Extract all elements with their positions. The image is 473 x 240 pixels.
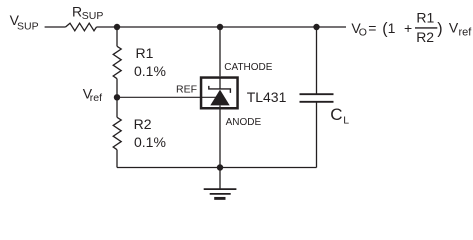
wire anode from triangle through box to ground rail	[219, 105, 221, 167]
fraction bar R1/R2	[415, 27, 437, 29]
svg-text:R2: R2	[416, 29, 434, 45]
wire ground stub	[219, 168, 221, 189]
svg-text:SUP: SUP	[82, 10, 104, 22]
wire REF net from Vref node to TL431	[117, 96, 216, 98]
wire cathode inside box	[219, 78, 221, 89]
node junction dot anode/ground rail	[217, 164, 223, 170]
svg-text:TL431: TL431	[247, 89, 287, 105]
resistor RSUP	[66, 23, 97, 31]
svg-text:R1: R1	[136, 45, 154, 61]
svg-text:1: 1	[388, 20, 396, 36]
svg-text:L: L	[343, 114, 349, 126]
wire R2 to ground rail	[116, 150, 118, 168]
value label R2 0.1%	[134, 116, 166, 150]
svg-text:R: R	[72, 4, 82, 20]
svg-text:ref: ref	[459, 27, 473, 39]
svg-text:R1: R1	[416, 9, 434, 25]
node junction dot Vref	[114, 94, 120, 100]
svg-text:ANODE: ANODE	[226, 117, 262, 128]
svg-text:SUP: SUP	[17, 21, 39, 33]
node label VSUP	[10, 12, 39, 33]
wire R1 to R2 through Vref node	[116, 79, 118, 118]
svg-text:C: C	[330, 105, 342, 124]
svg-text:+: +	[404, 20, 412, 36]
value label R1 0.1%	[134, 45, 166, 79]
wire bottom ground rail	[117, 167, 317, 169]
wire RSUP to output node	[97, 26, 347, 28]
resistor R1	[113, 46, 121, 78]
op-amp U1 TL431 body box	[201, 78, 238, 109]
svg-text:CATHODE: CATHODE	[224, 62, 272, 73]
node junction dot RSUP/R1	[114, 24, 120, 30]
svg-text:O: O	[359, 27, 367, 39]
node label Vref	[83, 86, 102, 104]
svg-text:REF: REF	[176, 83, 197, 95]
node junction dot output/capacitor	[313, 24, 319, 30]
svg-text:ref: ref	[90, 92, 102, 104]
svg-text:=: =	[368, 20, 376, 36]
value label RSUP	[72, 4, 103, 22]
svg-text:0.1%: 0.1%	[134, 63, 166, 79]
value label CL	[330, 105, 349, 126]
svg-text:V: V	[449, 20, 459, 36]
ground	[204, 189, 237, 198]
svg-text:R2: R2	[134, 116, 152, 132]
wire capacitor bottom to rail	[316, 102, 318, 168]
wire VSUP to RSUP	[45, 26, 66, 28]
wire cathode from top rail to TL431	[219, 27, 221, 76]
capacitor CL plates	[300, 94, 334, 102]
formula VO = (1 + R1/R2) Vref	[351, 9, 472, 45]
svg-text:0.1%: 0.1%	[134, 134, 166, 150]
TL431 diode triangle	[210, 90, 229, 106]
resistor R2	[113, 117, 121, 149]
TL431 cathode bar (zener bar with bent tips)	[209, 86, 231, 93]
svg-text:): )	[437, 21, 442, 38]
wire capacitor branch top	[316, 27, 318, 94]
wire top node to R1	[116, 27, 118, 46]
node junction dot cathode/top rail	[217, 24, 223, 30]
